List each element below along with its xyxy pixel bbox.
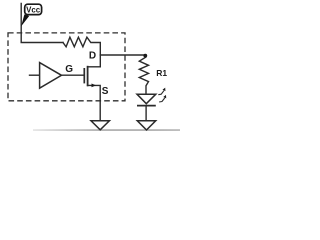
svg-text:D: D xyxy=(89,51,96,62)
svg-text:Vcc: Vcc xyxy=(26,6,41,15)
svg-text:G: G xyxy=(65,64,73,75)
svg-text:R1: R1 xyxy=(156,68,167,78)
svg-text:S: S xyxy=(102,86,109,97)
